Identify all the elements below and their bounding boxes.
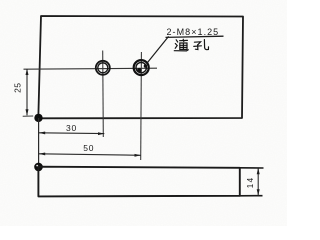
dimension 50: left arrow xyxy=(39,153,45,156)
left tapped hole inner circle xyxy=(98,63,108,73)
dimension 30: dimension line xyxy=(39,132,104,135)
svg-text:50: 50 xyxy=(83,143,94,153)
dimension 25: top arrow xyxy=(26,69,29,75)
hanzi KONG (hole) drawn strokes xyxy=(194,40,209,50)
svg-text:2-M8×1.25: 2-M8×1.25 xyxy=(167,27,220,37)
leader line from right hole to note xyxy=(147,36,168,62)
ink blob inside right hole (upper right) xyxy=(144,64,147,67)
dimension 50: right arrow xyxy=(135,154,141,157)
dimension 25: vertical dimension line at left xyxy=(26,69,28,115)
dimension 14: bottom arrow xyxy=(257,189,260,195)
dimension 14: dimension line xyxy=(257,168,259,195)
left tapped hole outer circle xyxy=(96,61,110,75)
dimension 50: dimension line xyxy=(39,154,141,156)
right tapped hole inner circle xyxy=(136,62,146,72)
vertical centerline of left hole xyxy=(102,51,105,138)
bottom extension line of 14 dim xyxy=(240,195,263,197)
svg-text:30: 30 xyxy=(66,123,77,133)
shared extension line below bottom-left corner xyxy=(38,118,40,167)
horizontal centerline through holes xyxy=(24,68,158,69)
svg-text:14: 14 xyxy=(246,176,255,188)
dimension 25: bottom arrow xyxy=(26,109,29,115)
top extension line of 14 dim xyxy=(240,167,264,169)
dimension 30: right arrow xyxy=(98,132,104,135)
bar outline (front view) xyxy=(38,167,239,197)
right tapped hole outer circle xyxy=(134,60,149,75)
note underline xyxy=(166,36,224,37)
junction dot at bar top-left corner xyxy=(34,163,43,172)
vertical centerline of right hole xyxy=(140,52,143,160)
plate outline (top view rectangle) xyxy=(38,16,243,118)
svg-text:25: 25 xyxy=(13,83,23,93)
dimension 25: bottom extension tick xyxy=(23,115,34,117)
ink blob inside right hole (lower left) xyxy=(137,68,142,73)
hanzi TONG (through) drawn strokes xyxy=(174,39,188,51)
dimension 30: left arrow xyxy=(39,132,45,135)
highlight speck in dot xyxy=(36,165,38,167)
junction dot at plate bottom-left corner xyxy=(34,114,42,122)
dimension 14: top arrow xyxy=(257,168,260,174)
